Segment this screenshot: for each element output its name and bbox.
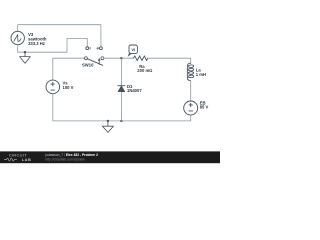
ground symbol under V3 — [20, 52, 31, 63]
junction dot diode top node — [120, 57, 122, 59]
svg-text:1 mH: 1 mH — [196, 72, 206, 77]
wire diode branch — [120, 58, 122, 121]
VI probe flag — [128, 45, 138, 57]
svg-text:LAB: LAB — [22, 157, 32, 162]
inductor La — [187, 63, 193, 80]
resistor Ra — [134, 56, 148, 61]
EB label — [200, 100, 209, 109]
wire EB bottom along bottom bus to Vs bottom — [53, 94, 191, 121]
svg-text:SW10: SW10 — [82, 62, 94, 67]
switch SW10 — [84, 57, 103, 66]
junction dot bottom ground node — [107, 120, 109, 122]
SW10 control terminal plus — [100, 47, 103, 50]
junction dot at V3 ground node — [24, 51, 26, 53]
svg-text:333.3 Hz: 333.3 Hz — [28, 41, 45, 46]
ground symbol bottom — [102, 121, 113, 132]
svg-text:200 mΩ: 200 mΩ — [137, 68, 152, 73]
switch blade — [88, 59, 103, 66]
CircuitLab logo — [4, 153, 31, 162]
V3 label — [28, 32, 47, 46]
svg-text:VI: VI — [131, 47, 135, 52]
wire Vs top to SW10 left terminal — [53, 58, 85, 80]
svg-text:100 V: 100 V — [63, 85, 74, 90]
wire La bottom to EB top — [190, 81, 192, 101]
plus mark — [97, 47, 99, 49]
SW10 control terminal minus — [86, 47, 89, 50]
wire V3 top to SW10 control plus — [18, 25, 101, 47]
voltage source Vs — [46, 80, 60, 94]
switch arrow — [98, 60, 100, 65]
Ra label — [137, 64, 152, 73]
wire V3 bottom to ground junction and staircase to SW10 control minus — [18, 39, 88, 53]
footer bar — [0, 151, 220, 163]
minus mark — [89, 47, 91, 49]
junction dot diode bottom node — [120, 120, 122, 122]
svg-text:85 V: 85 V — [200, 105, 209, 110]
svg-text:http://circuitlab.com/c/jodew: http://circuitlab.com/c/jodew — [46, 157, 86, 161]
D1 label — [127, 84, 142, 93]
wire SW10 right to resistor Ra — [104, 57, 134, 59]
wire Ra right to inductor La top — [148, 58, 191, 63]
svg-text:1N4007: 1N4007 — [127, 88, 142, 93]
La label — [196, 67, 206, 77]
sawtooth source V3 — [11, 31, 24, 44]
Vs label — [63, 80, 74, 89]
diode D1 — [118, 86, 125, 92]
battery source EB — [184, 101, 198, 115]
footer credit text — [45, 153, 99, 161]
